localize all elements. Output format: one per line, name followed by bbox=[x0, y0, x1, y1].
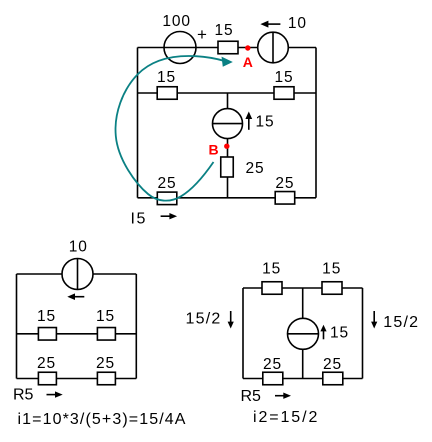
resistor 15 (middle left) bbox=[157, 87, 177, 100]
current source 10 (top right) bbox=[258, 32, 289, 63]
wire right (BR) bbox=[362, 288, 364, 379]
svg-text:15: 15 bbox=[330, 325, 349, 342]
resistor 25 (BR bottom right) bbox=[323, 372, 343, 385]
arrow right (R5 BR) bbox=[275, 395, 284, 397]
svg-text:25: 25 bbox=[246, 160, 265, 177]
arrow left (BL source direction) bbox=[74, 296, 84, 298]
resistor 15 (BR top right) bbox=[322, 282, 342, 295]
svg-text:B: B bbox=[208, 142, 218, 158]
wire bottom (BR) bbox=[243, 378, 363, 380]
current source 15 (BR) bbox=[288, 318, 319, 349]
arrow right (R5 BL) bbox=[47, 394, 56, 396]
wire left (BL) bbox=[16, 274, 18, 379]
svg-text:15: 15 bbox=[322, 261, 341, 278]
svg-text:25: 25 bbox=[263, 356, 282, 373]
resistor 15 (middle right) bbox=[274, 87, 294, 100]
resistor 25 (BR bottom left) bbox=[263, 372, 283, 385]
resistor 15 (BR top left) bbox=[262, 282, 282, 295]
wire bottom bbox=[138, 197, 317, 199]
svg-text:15: 15 bbox=[274, 69, 293, 86]
arrow down (left branch) bbox=[230, 311, 232, 322]
wire middle branch (BR) bbox=[302, 288, 304, 379]
svg-text:15/2: 15/2 bbox=[186, 311, 222, 328]
arrow left (10 source direction) bbox=[267, 23, 280, 25]
svg-text:i2=15/2: i2=15/2 bbox=[253, 409, 319, 426]
svg-text:25: 25 bbox=[323, 356, 342, 373]
resistor 25 (BL bottom left) bbox=[38, 372, 56, 385]
svg-text:25: 25 bbox=[37, 355, 56, 372]
wire left (BR) bbox=[242, 288, 244, 379]
svg-text:R5: R5 bbox=[13, 387, 34, 404]
svg-text:25: 25 bbox=[275, 175, 294, 192]
wire middle (BL) bbox=[17, 333, 137, 335]
svg-text:15: 15 bbox=[262, 261, 281, 278]
wire middle branch lower bbox=[227, 139, 229, 198]
wire middle horizontal bbox=[138, 92, 317, 94]
voltage source V 100 bbox=[164, 32, 196, 64]
svg-text:25: 25 bbox=[96, 355, 115, 372]
arrow right (I5) bbox=[161, 215, 170, 217]
svg-text:15: 15 bbox=[157, 69, 176, 86]
resistor 25 (vertical) bbox=[221, 157, 234, 177]
current source 10 (BL) bbox=[62, 259, 93, 290]
svg-text:10: 10 bbox=[288, 15, 307, 32]
svg-text:i1=10*3/(5+3)=15/4A: i1=10*3/(5+3)=15/4A bbox=[18, 411, 187, 428]
wire top-left segment (through V source) bbox=[138, 47, 259, 49]
wire left side bbox=[137, 48, 139, 198]
wire top (BR) bbox=[243, 287, 363, 289]
arrow up (BR source direction) bbox=[323, 331, 325, 339]
teal current path arc B to A bbox=[116, 56, 225, 201]
svg-text:100: 100 bbox=[162, 13, 191, 30]
resistor 15 (BL middle left) bbox=[38, 328, 56, 341]
svg-text:15: 15 bbox=[214, 22, 233, 39]
svg-text:+: + bbox=[197, 25, 207, 44]
resistor 15 (top) bbox=[218, 41, 238, 54]
wire right side bbox=[315, 48, 317, 198]
arrow up (15 source direction) bbox=[248, 118, 250, 130]
svg-text:25: 25 bbox=[157, 175, 176, 192]
wire bottom (BL) bbox=[17, 378, 137, 380]
resistor 25 (bottom right) bbox=[275, 192, 295, 205]
resistor 25 (bottom left) bbox=[157, 192, 177, 205]
node B bbox=[224, 144, 229, 149]
svg-text:15/2: 15/2 bbox=[383, 314, 419, 331]
wire middle branch upper bbox=[227, 93, 229, 109]
arrow down (right branch) bbox=[373, 311, 375, 322]
svg-text:15: 15 bbox=[37, 308, 56, 325]
svg-text:R5: R5 bbox=[241, 388, 262, 405]
wire top-right segment bbox=[288, 47, 316, 49]
wire right (BL) bbox=[135, 274, 137, 379]
current source 15 (middle) bbox=[213, 109, 243, 139]
resistor 25 (BL bottom right) bbox=[97, 372, 115, 385]
svg-text:A: A bbox=[243, 54, 253, 70]
svg-text:I5: I5 bbox=[131, 211, 147, 228]
svg-text:15: 15 bbox=[96, 308, 115, 325]
wire top (BL) bbox=[17, 273, 137, 275]
node A bbox=[245, 45, 250, 50]
svg-text:15: 15 bbox=[256, 114, 275, 131]
svg-text:10: 10 bbox=[69, 239, 88, 256]
resistor 15 (BL middle right) bbox=[97, 328, 115, 341]
